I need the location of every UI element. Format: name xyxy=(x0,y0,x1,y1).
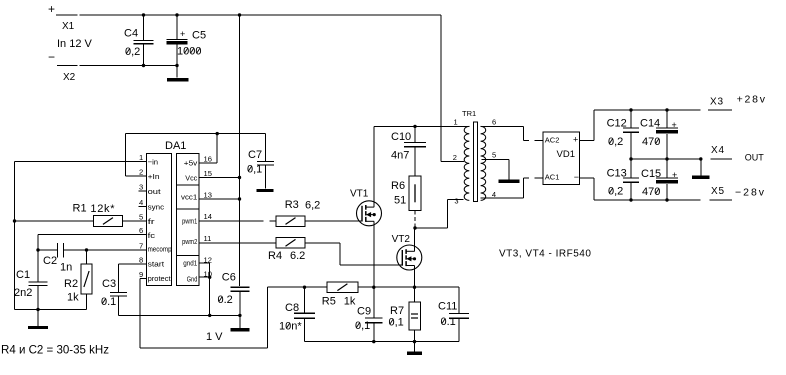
wire +5v reference net (pin2 - pin16 - C7) xyxy=(126,133,266,135)
svg-text:−28v: −28v xyxy=(735,187,766,199)
svg-text:fr: fr xyxy=(148,217,156,226)
svg-text:R4: R4 xyxy=(268,250,282,262)
svg-text:X3: X3 xyxy=(710,97,724,108)
wire pin 9 protect to current sense xyxy=(140,278,146,280)
svg-text:AC2: AC2 xyxy=(545,136,560,145)
svg-text:7: 7 xyxy=(139,242,143,251)
wire - rail xyxy=(144,65,178,67)
wire pin 10 Gnd xyxy=(199,276,210,278)
wire current sense rail xyxy=(268,286,327,288)
svg-text:fс: fс xyxy=(148,231,156,240)
ground at output xyxy=(699,157,702,160)
wire + rail top xyxy=(144,14,442,16)
svg-text:470: 470 xyxy=(642,186,660,198)
svg-text:protect: protect xyxy=(148,274,172,283)
svg-text:C10: C10 xyxy=(391,131,411,143)
svg-text:−: − xyxy=(48,50,55,64)
svg-text:C3: C3 xyxy=(102,278,116,290)
svg-text:VD1: VD1 xyxy=(557,149,575,160)
wire pin 16 stub xyxy=(199,162,217,164)
svg-text:R7: R7 xyxy=(390,305,404,317)
svg-text:5: 5 xyxy=(492,151,496,160)
svg-text:C5: C5 xyxy=(192,30,206,42)
svg-text:C8: C8 xyxy=(285,302,299,314)
svg-text:9: 9 xyxy=(139,270,143,279)
svg-text:6: 6 xyxy=(492,118,496,127)
svg-text:X2: X2 xyxy=(63,72,76,83)
ground below C7 xyxy=(257,189,274,192)
svg-text:−: − xyxy=(574,172,579,182)
svg-text:2: 2 xyxy=(139,168,143,177)
wire -28V rail xyxy=(594,199,701,201)
svg-text:out: out xyxy=(148,187,162,196)
svg-text:6,2: 6,2 xyxy=(305,199,320,211)
wire pin 15 Vcc to +12V xyxy=(199,177,240,179)
svg-text:+: + xyxy=(48,2,55,16)
wire pin 2 +In up xyxy=(126,175,147,177)
TR1 pin 5 wire (secondary center tap) to ground xyxy=(482,158,509,160)
svg-text:1 V: 1 V xyxy=(206,331,223,343)
svg-text:start: start xyxy=(148,260,165,269)
wire VT1 source xyxy=(373,221,375,287)
svg-text:pwm1: pwm1 xyxy=(182,217,197,226)
svg-text:DA1: DA1 xyxy=(165,140,186,152)
svg-text:R2: R2 xyxy=(64,278,78,290)
svg-text:+28v: +28v xyxy=(737,94,767,106)
svg-text:12k*: 12k* xyxy=(90,203,115,215)
svg-text:C7: C7 xyxy=(248,149,262,161)
svg-text:+5v: +5v xyxy=(184,159,198,168)
wire +28V rail xyxy=(594,109,701,111)
wire VD1 - output xyxy=(580,177,595,179)
svg-text:X4: X4 xyxy=(711,145,725,156)
svg-text:1k: 1k xyxy=(67,292,79,304)
svg-text:Gnd: Gnd xyxy=(187,275,198,284)
svg-text:−in: −in xyxy=(148,158,159,167)
svg-text:8: 8 xyxy=(139,256,143,265)
svg-text:470: 470 xyxy=(642,136,660,148)
ground below R7 xyxy=(414,342,416,352)
svg-text:4n7: 4n7 xyxy=(391,150,409,162)
svg-text:2n2: 2n2 xyxy=(14,287,32,299)
svg-text:R5: R5 xyxy=(322,296,336,308)
wire left bus vertical xyxy=(14,162,16,310)
svg-text:4: 4 xyxy=(139,198,143,207)
svg-text:10n*: 10n* xyxy=(279,321,302,333)
pin 4 stub xyxy=(139,206,147,208)
wire pin 1 -in to left bus xyxy=(15,161,147,163)
svg-text:5: 5 xyxy=(139,213,143,222)
svg-text:51: 51 xyxy=(394,195,406,207)
svg-text:R4 и C2 = 30-35 kHz: R4 и C2 = 30-35 kHz xyxy=(1,343,109,357)
wire DA1 ground rail xyxy=(119,314,240,316)
ground below C6 xyxy=(230,328,249,332)
svg-text:C4: C4 xyxy=(124,28,138,40)
diode bridge VD1 xyxy=(543,132,580,185)
svg-text:1: 1 xyxy=(454,118,458,127)
svg-text:vcc1: vcc1 xyxy=(181,193,197,202)
svg-text:X5: X5 xyxy=(711,186,725,197)
svg-text:In 12 V: In 12 V xyxy=(57,38,93,50)
wire +12V drop to DA1 Vcc and C6 xyxy=(239,15,241,286)
svg-text:+: + xyxy=(573,135,578,145)
TR1 core xyxy=(474,122,478,202)
svg-text:13: 13 xyxy=(204,191,212,200)
wire VT2 source xyxy=(414,266,416,288)
svg-text:+In: +In xyxy=(148,172,160,181)
TR1 pin 2 wire (center tap to +12V) xyxy=(440,15,442,162)
svg-text:15: 15 xyxy=(204,169,212,178)
wire VT1 drain xyxy=(373,126,375,207)
pin 3 stub xyxy=(139,190,147,192)
svg-text:C2: C2 xyxy=(43,255,57,267)
ground below C1 xyxy=(36,308,39,311)
svg-text:mecomp: mecomp xyxy=(148,245,172,254)
svg-text:VT3, VT4 - IRF540: VT3, VT4 - IRF540 xyxy=(499,249,591,260)
wire pin 6 fc xyxy=(38,234,146,236)
svg-text:6: 6 xyxy=(139,226,143,235)
svg-text:2: 2 xyxy=(453,153,457,162)
svg-text:C6: C6 xyxy=(222,272,236,284)
svg-text:16: 16 xyxy=(204,155,212,164)
wire transformer pin 3 to VT2 drain xyxy=(415,227,448,229)
svg-text:+: + xyxy=(180,29,185,39)
wire VT2 drain xyxy=(414,228,416,251)
wire sense ground rail xyxy=(305,341,460,343)
svg-text:C1: C1 xyxy=(16,269,30,281)
wire OUT mid rail xyxy=(631,158,701,160)
TR1 pin 4 wire to VD1 AC1 xyxy=(480,197,523,199)
svg-text:4: 4 xyxy=(492,190,496,199)
svg-text:6.2: 6.2 xyxy=(290,250,305,262)
svg-text:3: 3 xyxy=(139,183,143,192)
svg-text:R1: R1 xyxy=(73,203,87,215)
svg-text:3: 3 xyxy=(454,196,458,205)
svg-text:14: 14 xyxy=(204,212,212,221)
wire VD1 + output xyxy=(580,139,595,141)
svg-text:11: 11 xyxy=(204,234,212,243)
wire pin 13 vcc1 to +12V xyxy=(199,198,240,200)
svg-text:AC1: AC1 xyxy=(545,173,560,182)
svg-text:sync: sync xyxy=(148,203,165,212)
svg-text:TR1: TR1 xyxy=(462,109,476,118)
TR1 pin 6 wire to VD1 AC2 xyxy=(480,125,523,127)
svg-text:C11: C11 xyxy=(438,301,457,313)
svg-text:X1: X1 xyxy=(62,21,75,32)
wire pin 12 gnd1 xyxy=(199,262,210,264)
svg-text:1k: 1k xyxy=(344,296,356,308)
svg-text:1n: 1n xyxy=(60,262,72,274)
svg-text:R3: R3 xyxy=(285,199,299,211)
wire VT1 drain to transformer pin 1 xyxy=(374,125,470,127)
svg-text:1: 1 xyxy=(139,153,143,162)
svg-text:OUT: OUT xyxy=(745,153,765,163)
svg-text:VT1: VT1 xyxy=(350,189,369,200)
ground below C5 xyxy=(167,78,189,82)
svg-text:gnd1: gnd1 xyxy=(183,259,197,268)
svg-text:C9: C9 xyxy=(357,306,371,318)
TR1 secondary winding xyxy=(481,126,486,200)
svg-text:VT2: VT2 xyxy=(392,234,411,245)
svg-text:Vcc: Vcc xyxy=(185,174,197,183)
wire bottom left bus xyxy=(15,309,87,311)
svg-text:R6: R6 xyxy=(391,180,405,192)
TR1 primary winding xyxy=(464,126,469,200)
svg-text:pwm2: pwm2 xyxy=(182,237,197,246)
